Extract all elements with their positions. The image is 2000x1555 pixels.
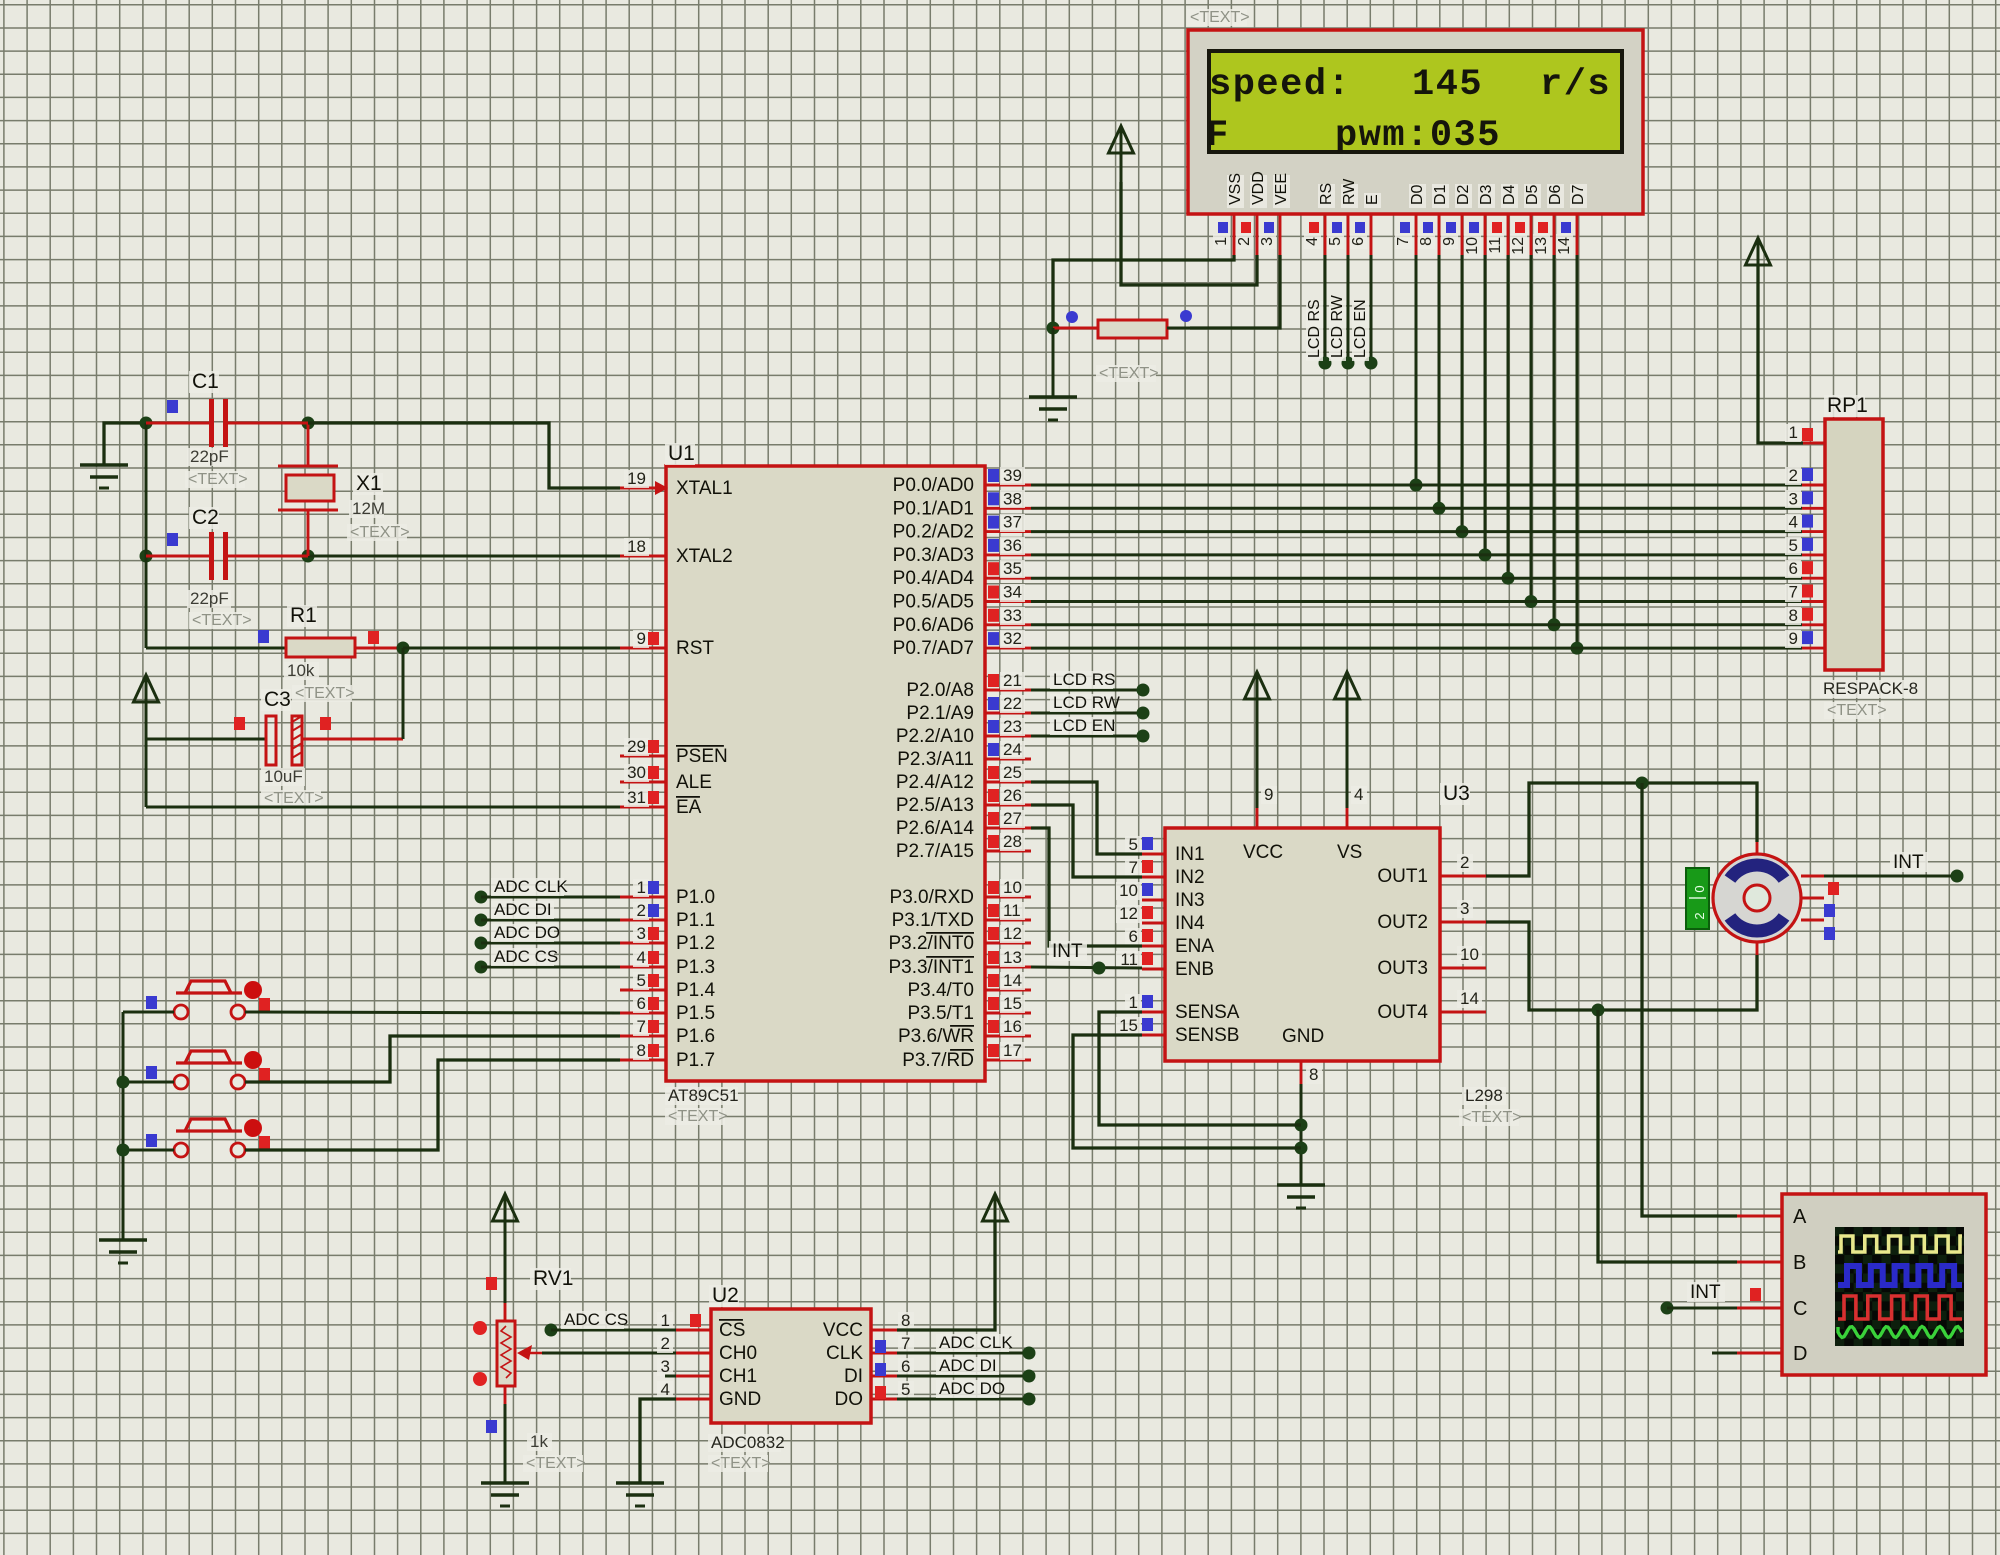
svg-text:VSS: VSS [1227,173,1244,205]
svg-text:D2: D2 [1455,184,1472,205]
svg-text:P3.0/RXD: P3.0/RXD [890,887,974,908]
svg-text:10: 10 [1464,237,1481,255]
svg-text:P3.3/INT1: P3.3/INT1 [888,957,974,978]
svg-text:10uF: 10uF [264,767,303,786]
svg-text:LCD RS: LCD RS [1053,670,1115,689]
svg-text:32: 32 [1003,629,1022,648]
svg-text:P1.0: P1.0 [676,887,715,908]
svg-text:IN4: IN4 [1175,913,1205,934]
svg-text:LCD RS: LCD RS [1306,299,1323,358]
svg-text:14: 14 [1460,989,1479,1008]
svg-text:C2: C2 [192,506,219,529]
svg-text:5: 5 [637,971,646,990]
svg-text:P2.6/A14: P2.6/A14 [896,818,975,839]
svg-text:P3.4/T0: P3.4/T0 [907,980,974,1001]
svg-text:28: 28 [1003,832,1022,851]
svg-text:4: 4 [637,948,646,967]
svg-text:15: 15 [1003,994,1022,1013]
svg-text:IN2: IN2 [1175,867,1205,888]
svg-text:U3: U3 [1443,782,1470,805]
svg-text:<TEXT>: <TEXT> [264,790,324,807]
svg-text:3: 3 [1789,489,1798,508]
svg-text:1: 1 [637,878,646,897]
svg-text:P2.0/A8: P2.0/A8 [906,680,974,701]
svg-text:RESPACK-8: RESPACK-8 [1823,679,1918,698]
svg-text:8: 8 [1309,1065,1318,1084]
svg-text:145: 145 [1412,64,1483,106]
svg-text:35: 35 [1003,559,1022,578]
svg-text:11: 11 [1487,237,1504,254]
svg-text:5: 5 [901,1380,910,1399]
svg-text:P2.7/A15: P2.7/A15 [896,841,974,862]
svg-text:<TEXT>: <TEXT> [350,524,410,541]
svg-text:<TEXT>: <TEXT> [526,1455,586,1472]
svg-text:pwm:035: pwm:035 [1335,115,1501,157]
svg-text:15: 15 [1119,1016,1138,1035]
svg-text:ADC CLK: ADC CLK [939,1333,1013,1352]
svg-text:10: 10 [1460,945,1479,964]
svg-text:ENA: ENA [1175,936,1214,957]
svg-text:L298: L298 [1465,1086,1503,1105]
svg-text:AT89C51: AT89C51 [668,1086,739,1105]
svg-text:P1.2: P1.2 [676,933,715,954]
svg-text:P0.7/AD7: P0.7/AD7 [893,638,974,659]
svg-text:D1: D1 [1432,184,1449,205]
svg-text:P1.6: P1.6 [676,1026,715,1047]
svg-text:LCD RW: LCD RW [1329,294,1346,358]
svg-text:CH1: CH1 [719,1366,757,1387]
svg-text:31: 31 [627,788,646,807]
svg-text:16: 16 [1003,1017,1022,1036]
svg-text:ENB: ENB [1175,959,1214,980]
svg-text:7: 7 [1129,858,1138,877]
svg-text:P0.5/AD5: P0.5/AD5 [893,592,974,613]
svg-text:12: 12 [1510,237,1527,255]
svg-text:14: 14 [1003,971,1022,990]
svg-text:RV1: RV1 [533,1267,573,1290]
svg-text:5: 5 [1789,536,1798,555]
svg-text:10: 10 [1119,881,1138,900]
svg-text:2: 2 [1692,912,1707,919]
svg-text:4: 4 [1789,513,1798,532]
svg-text:ADC CS: ADC CS [564,1310,628,1329]
svg-text:<TEXT>: <TEXT> [711,1455,771,1472]
svg-text:P2.2/A10: P2.2/A10 [896,726,974,747]
svg-text:37: 37 [1003,513,1022,532]
svg-text:<TEXT>: <TEXT> [1462,1109,1522,1126]
svg-text:P1.3: P1.3 [676,957,715,978]
svg-text:8: 8 [1789,606,1798,625]
svg-text:LCD EN: LCD EN [1053,716,1115,735]
svg-text:OUT2: OUT2 [1377,912,1428,933]
svg-text:30: 30 [627,763,646,782]
svg-text:8: 8 [1418,237,1435,246]
svg-text:P0.2/AD2: P0.2/AD2 [893,522,974,543]
svg-text:A: A [1793,1206,1807,1228]
svg-text:D7: D7 [1570,184,1587,205]
svg-text:6: 6 [637,994,646,1013]
svg-text:9: 9 [1789,629,1798,648]
svg-text:25: 25 [1003,763,1022,782]
svg-text:5: 5 [1129,835,1138,854]
svg-text:P2.4/A12: P2.4/A12 [896,772,974,793]
svg-text:26: 26 [1003,786,1022,805]
svg-text:P1.5: P1.5 [676,1003,715,1024]
svg-text:21: 21 [1003,671,1022,690]
svg-text:ADC DO: ADC DO [494,923,560,942]
svg-text:14: 14 [1556,237,1573,255]
svg-text:<TEXT>: <TEXT> [192,612,252,629]
svg-text:P3.6/WR: P3.6/WR [898,1026,974,1047]
svg-text:B: B [1793,1252,1806,1274]
svg-text:36: 36 [1003,536,1022,555]
svg-text:11: 11 [1120,950,1138,969]
svg-text:6: 6 [901,1357,910,1376]
svg-text:VCC: VCC [823,1320,863,1341]
svg-text:6: 6 [1129,927,1138,946]
svg-text:22pF: 22pF [190,589,229,608]
svg-text:VEE: VEE [1273,173,1290,205]
svg-text:ADC0832: ADC0832 [711,1433,785,1452]
svg-text:SENSA: SENSA [1175,1002,1240,1023]
svg-text:6: 6 [1350,237,1367,246]
svg-text:1: 1 [1213,237,1230,246]
svg-text:D: D [1793,1343,1807,1365]
svg-text:ADC DI: ADC DI [494,900,552,919]
svg-text:38: 38 [1003,489,1022,508]
svg-text:17: 17 [1003,1041,1022,1060]
svg-text:1: 1 [1129,993,1138,1012]
svg-text:F: F [1206,115,1228,157]
svg-text:7: 7 [1395,237,1412,246]
svg-text:<TEXT>: <TEXT> [668,1108,728,1125]
svg-text:2: 2 [1789,466,1798,485]
svg-text:P0.0/AD0: P0.0/AD0 [893,475,974,496]
svg-text:13: 13 [1533,237,1550,255]
svg-text:P1.4: P1.4 [676,980,716,1001]
svg-text:<TEXT>: <TEXT> [1827,702,1887,719]
svg-text:CS: CS [719,1320,745,1341]
svg-text:P2.3/A11: P2.3/A11 [897,749,974,770]
svg-text:VS: VS [1337,842,1362,863]
svg-text:LCD EN: LCD EN [1352,299,1369,358]
svg-text:1: 1 [1789,423,1798,442]
svg-text:OUT1: OUT1 [1377,866,1428,887]
svg-text:C: C [1793,1298,1807,1320]
svg-text:11: 11 [1003,901,1021,920]
svg-text:INT: INT [1690,1282,1721,1303]
svg-text:5: 5 [1327,237,1344,246]
svg-text:13: 13 [1003,948,1022,967]
svg-text:2: 2 [661,1334,670,1353]
svg-text:D6: D6 [1547,184,1564,205]
svg-text:3: 3 [661,1357,670,1376]
svg-text:OUT3: OUT3 [1377,958,1428,979]
svg-text:24: 24 [1003,740,1022,759]
svg-text:P0.3/AD3: P0.3/AD3 [893,545,974,566]
svg-text:ADC CS: ADC CS [494,947,558,966]
svg-text:2: 2 [637,901,646,920]
svg-text:33: 33 [1003,606,1022,625]
svg-text:ADC CLK: ADC CLK [494,877,568,896]
svg-text:P2.1/A9: P2.1/A9 [906,703,974,724]
svg-text:speed:: speed: [1209,64,1351,106]
svg-text:R1: R1 [290,604,317,627]
svg-text:CH0: CH0 [719,1343,757,1364]
svg-text:3: 3 [637,924,646,943]
svg-text:DI: DI [844,1366,863,1387]
svg-text:22: 22 [1003,694,1022,713]
svg-text:6: 6 [1789,559,1798,578]
svg-text:<TEXT>: <TEXT> [188,471,248,488]
svg-text:27: 27 [1003,809,1022,828]
svg-text:D3: D3 [1478,184,1495,205]
svg-text:4: 4 [1354,785,1363,804]
svg-text:P2.5/A13: P2.5/A13 [896,795,974,816]
svg-text:D0: D0 [1409,184,1426,205]
svg-text:12: 12 [1119,904,1138,923]
svg-text:RP1: RP1 [1827,394,1868,417]
svg-text:P1.7: P1.7 [676,1050,715,1071]
svg-text:4: 4 [1304,237,1321,246]
svg-text:INT: INT [1893,852,1924,873]
svg-text:ADC DI: ADC DI [939,1356,997,1375]
svg-text:RST: RST [676,638,714,659]
svg-text:0: 0 [1692,885,1707,892]
svg-text:EA: EA [676,797,702,818]
svg-text:23: 23 [1003,717,1022,736]
svg-text:7: 7 [1789,583,1798,602]
svg-text:INT: INT [1052,941,1083,962]
svg-text:P0.4/AD4: P0.4/AD4 [893,568,975,589]
svg-text:D4: D4 [1501,184,1518,205]
svg-text:9: 9 [1264,785,1273,804]
svg-text:29: 29 [627,737,646,756]
svg-text:34: 34 [1003,583,1022,602]
svg-text:4: 4 [661,1380,670,1399]
svg-text:P0.1/AD1: P0.1/AD1 [893,498,974,519]
svg-text:22pF: 22pF [190,447,229,466]
svg-text:RS: RS [1318,183,1335,205]
svg-text:D5: D5 [1524,184,1541,205]
svg-text:OUT4: OUT4 [1377,1002,1428,1023]
svg-text:19: 19 [627,469,646,488]
svg-text:10: 10 [1003,878,1022,897]
svg-text:9: 9 [1441,237,1458,246]
svg-text:9: 9 [637,629,646,648]
svg-text:P3.5/T1: P3.5/T1 [907,1003,974,1024]
svg-text:8: 8 [637,1041,646,1060]
svg-text:X1: X1 [356,472,382,495]
svg-text:PSEN: PSEN [676,746,728,767]
svg-text:7: 7 [901,1334,910,1353]
svg-text:1k: 1k [530,1432,548,1451]
svg-text:r/s: r/s [1540,64,1611,106]
svg-text:7: 7 [637,1017,646,1036]
svg-text:U1: U1 [668,442,695,465]
svg-text:IN1: IN1 [1175,844,1205,865]
svg-text:39: 39 [1003,466,1022,485]
svg-text:CLK: CLK [826,1343,863,1364]
svg-text:<TEXT>: <TEXT> [1099,365,1159,382]
svg-text:8: 8 [901,1311,910,1330]
svg-text:IN3: IN3 [1175,890,1205,911]
svg-text:P1.1: P1.1 [676,910,715,931]
svg-text:U2: U2 [712,1284,739,1307]
svg-text:XTAL2: XTAL2 [676,546,733,567]
svg-text:1: 1 [661,1311,670,1330]
svg-text:18: 18 [627,537,646,556]
svg-text:C3: C3 [264,688,291,711]
svg-text:2: 2 [1460,853,1469,872]
svg-text:DO: DO [835,1389,864,1410]
svg-text:3: 3 [1259,237,1276,246]
svg-text:<TEXT>: <TEXT> [295,685,355,702]
svg-text:ALE: ALE [676,772,712,793]
svg-text:RW: RW [1341,178,1358,205]
svg-text:3: 3 [1460,899,1469,918]
svg-text:LCD RW: LCD RW [1053,693,1120,712]
svg-text:P3.1/TXD: P3.1/TXD [892,910,974,931]
svg-text:12M: 12M [352,499,385,518]
svg-text:10k: 10k [287,661,315,680]
svg-text:VCC: VCC [1243,842,1283,863]
svg-text:E: E [1364,194,1381,205]
svg-text:GND: GND [1282,1026,1324,1047]
svg-text:12: 12 [1003,924,1022,943]
svg-text:P3.2/INT0: P3.2/INT0 [888,933,974,954]
svg-text:GND: GND [719,1389,761,1410]
svg-text:P3.7/RD: P3.7/RD [902,1050,974,1071]
svg-text:ADC DO: ADC DO [939,1379,1005,1398]
svg-text:XTAL1: XTAL1 [676,478,733,499]
svg-text:P0.6/AD6: P0.6/AD6 [893,615,974,636]
svg-text:<TEXT>: <TEXT> [1190,9,1250,26]
svg-text:VDD: VDD [1250,171,1267,205]
svg-text:2: 2 [1236,237,1253,246]
svg-text:SENSB: SENSB [1175,1025,1239,1046]
svg-text:C1: C1 [192,370,219,393]
